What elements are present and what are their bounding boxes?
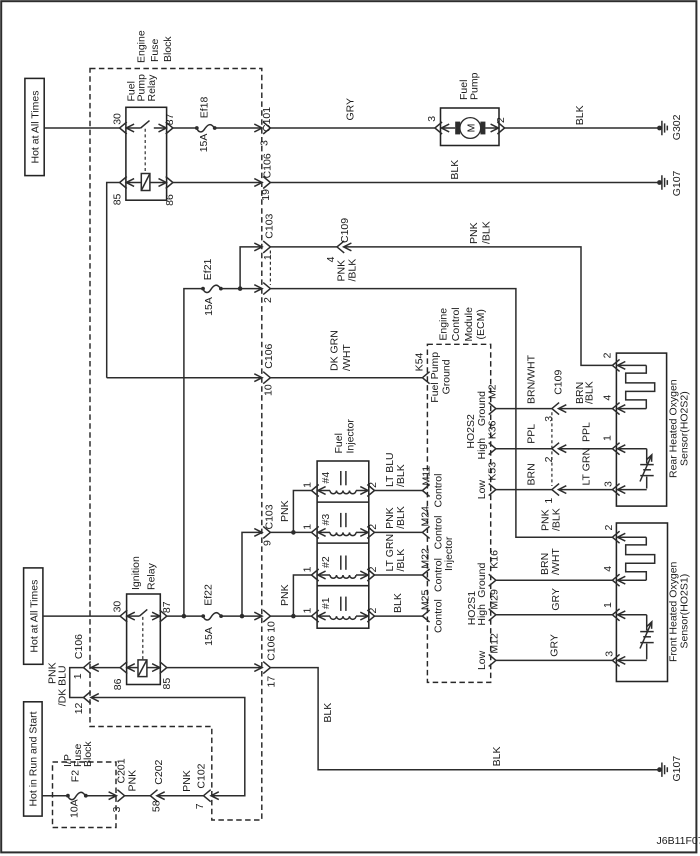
power box: Hot at All Times (lower) (24, 568, 43, 664)
wire: PNK/BLK to rear sensor pin 2 (344, 221, 613, 365)
svg-text:/BLK: /BLK (395, 506, 407, 529)
ECM pin K54 Fuel Pump Ground (414, 352, 453, 403)
svg-text:10: 10 (263, 384, 275, 396)
wire: BLK to ground G107 (270, 160, 659, 183)
fuel pump relay switch contact 30-87 (126, 121, 166, 132)
svg-text:C106 10: C106 10 (266, 621, 278, 661)
svg-text:G107: G107 (671, 170, 683, 196)
svg-text:PNK: PNK (279, 584, 291, 606)
svg-text:C109: C109 (553, 370, 565, 395)
svg-text:3: 3 (603, 481, 615, 487)
wire: relay85 branch to connector C106 pin 10 (107, 377, 262, 379)
svg-text:Injector: Injector (443, 536, 455, 571)
wire: pin 12 right and down to C102 (91, 698, 245, 796)
ECM pin M12 HO2S1 low (476, 633, 501, 670)
svg-text:30: 30 (112, 601, 124, 613)
fuel pump relay pin 85 (112, 177, 127, 206)
I/P Fuse Block dashed box (53, 741, 117, 828)
svg-text:2: 2 (543, 456, 555, 462)
svg-text:1: 1 (302, 482, 314, 488)
wire: PNK C202 to C102 (157, 770, 204, 795)
svg-text:2: 2 (602, 352, 614, 358)
svg-text:C106: C106 (262, 153, 274, 178)
fuel injector block (box) (317, 419, 369, 629)
connector pin 12 (73, 692, 99, 715)
connector C102 pin 7 (194, 763, 219, 809)
svg-text:BLK: BLK (322, 703, 334, 723)
svg-text:85: 85 (112, 193, 124, 205)
svg-text:Fuel Pump: Fuel Pump (429, 352, 441, 403)
wire: Hot at All Times to fuel pump relay pin 30 (44, 127, 119, 129)
svg-text:(ECM): (ECM) (475, 309, 487, 339)
wire: BRN/WHT M2 to C109-3 (496, 354, 552, 408)
junction on Ef22 wire at x184 (182, 614, 187, 619)
wire: relay pin 85 branch left and down to C106-10 wire (107, 183, 120, 378)
rear sensor sense cell (618, 445, 654, 494)
fuel pump relay pin 86 (164, 177, 176, 206)
injector 2 (coil and pins) (302, 556, 379, 582)
svg-text:C102: C102 (195, 763, 207, 788)
svg-text:2: 2 (367, 482, 379, 488)
front sensor pin 1 (602, 602, 620, 621)
svg-text:C109: C109 (339, 218, 351, 243)
ECM: Engine Control Module dashed box (427, 344, 490, 682)
connector C109 pin 1 (543, 484, 567, 504)
injector 4 (coil and pins) (302, 471, 379, 497)
ECM pin K16 HO2S1 ground (476, 550, 501, 598)
wire: relay pin 86 to connector C106-19 (173, 182, 262, 184)
wire: BLK down and across to G107 (270, 668, 659, 770)
rear sensor pin 1 (602, 435, 620, 455)
svg-text:1: 1 (302, 524, 314, 530)
svg-text:/BLK: /BLK (395, 464, 407, 487)
svg-text:58: 58 (150, 800, 162, 812)
svg-text:Hot in Run and Start: Hot in Run and Start (28, 711, 40, 806)
fuse Ef18 15A (195, 97, 217, 153)
ignition relay dashed actuator link (142, 617, 144, 660)
svg-text:BLK: BLK (574, 105, 586, 125)
wire: injector control to ECM pin M24 (375, 506, 445, 549)
svg-text:BRN/WHT: BRN/WHT (525, 354, 537, 404)
svg-text:15A: 15A (203, 297, 215, 316)
fuel pump relay pin 87 (164, 113, 176, 134)
svg-text:M25: M25 (420, 590, 432, 611)
rear sensor pin 2 (602, 352, 620, 371)
svg-text:4: 4 (602, 395, 614, 401)
front sensor heater element (618, 533, 655, 584)
svg-text:1: 1 (543, 498, 555, 504)
svg-text:C106: C106 (263, 343, 275, 368)
ignition relay coil (127, 660, 160, 677)
svg-text:BLK: BLK (491, 747, 503, 767)
svg-text:/BLK: /BLK (347, 259, 359, 282)
svg-text:BLK: BLK (449, 160, 461, 180)
wire: BRN/BLK C109-3 to rear sensor pin 4 (559, 381, 613, 408)
ignition relay pin 87 (160, 601, 173, 622)
svg-text:PNK: PNK (468, 222, 480, 244)
rear sensor pin 4 (602, 395, 620, 415)
wire: relay 87 to fuse Ef18 (173, 127, 197, 129)
svg-text:85: 85 (161, 678, 173, 690)
front sensor pin 2 (603, 525, 619, 544)
svg-text:PPL: PPL (580, 422, 592, 442)
wire: Hot in Run and Start to fuse F2 (42, 795, 68, 797)
svg-text:Fuse: Fuse (149, 38, 161, 62)
svg-text:C202: C202 (153, 759, 165, 784)
relay: Ignition Relay (box) (127, 556, 161, 685)
svg-text:2: 2 (367, 566, 379, 572)
svg-text:15A: 15A (198, 134, 210, 153)
svg-text:#1: #1 (320, 597, 332, 609)
connector C103 harness bracket (269, 251, 271, 286)
svg-text:BRN: BRN (525, 463, 537, 485)
svg-text:2: 2 (603, 525, 615, 531)
svg-text:M: M (466, 124, 478, 133)
rear heated oxygen sensor HO2S2 (box) (616, 353, 690, 506)
label: Engine Control Module (ECM) (437, 307, 487, 342)
connector C103 pin 9 (254, 504, 275, 546)
svg-text:2: 2 (367, 608, 379, 614)
svg-text:C103: C103 (263, 213, 275, 238)
svg-text:LT GRN: LT GRN (580, 448, 592, 486)
connector C101 pin 3 (254, 107, 273, 146)
svg-text:#2: #2 (320, 556, 332, 568)
svg-text:30: 30 (112, 113, 124, 125)
ignition relay switch contact 30-87 (127, 609, 160, 620)
svg-text:Injector: Injector (344, 419, 356, 454)
relay: Fuel Pump Relay (box) (125, 74, 166, 200)
svg-text:PNK: PNK (279, 500, 291, 522)
svg-text:Ground: Ground (441, 359, 453, 394)
svg-text:M24: M24 (420, 506, 432, 527)
wire: PNK/DK BLU jog from C106-1 to pin 12 (46, 662, 83, 706)
wire: injector control to ECM pin M22 (375, 534, 445, 592)
svg-text:3: 3 (426, 116, 438, 122)
svg-text:GRY: GRY (548, 634, 560, 657)
wire: GRY M29 to front sensor pin 1 (496, 588, 613, 615)
connector C106 pin 1 (72, 634, 99, 679)
svg-text:1: 1 (302, 566, 314, 572)
ignition relay pin 86 (112, 662, 127, 691)
svg-text:M2: M2 (487, 384, 499, 399)
svg-text:G107: G107 (671, 756, 683, 782)
wire: Hot at All Times to ignition relay pin 30 (43, 615, 120, 617)
svg-text:M29: M29 (489, 589, 501, 610)
rear sensor heater element (618, 362, 655, 413)
svg-text:1: 1 (602, 435, 614, 441)
svg-text:K53: K53 (487, 462, 499, 481)
svg-text:87: 87 (164, 113, 176, 125)
junction and branch up to C103 pin 1 (238, 247, 262, 291)
svg-text:15A: 15A (203, 627, 215, 646)
svg-text:1: 1 (262, 254, 274, 260)
connector C103 pin 1 (254, 213, 275, 260)
svg-text:2: 2 (495, 117, 507, 123)
wire: ignition relay 85 to connector C106 pin 17 (167, 667, 262, 669)
svg-text:C103: C103 (263, 504, 275, 529)
svg-text:Low: Low (476, 480, 488, 500)
svg-text:7: 7 (194, 803, 206, 809)
svg-text:Ef18: Ef18 (198, 97, 210, 119)
wire: C103-1 to inline connector C109-4 (270, 246, 337, 248)
wire: GRY to fuel pump (270, 98, 435, 128)
svg-text:M12: M12 (489, 633, 501, 654)
connector C103 pin 2 (254, 283, 273, 303)
ECM pin M29 HO2S1 high (476, 589, 501, 626)
svg-text:1: 1 (72, 673, 84, 679)
wire: fuse Ef21 to connector C103 pin 2 (221, 288, 262, 290)
svg-text:Control: Control (450, 307, 462, 341)
svg-text:PNK: PNK (126, 770, 138, 792)
svg-text:High: High (476, 438, 488, 460)
svg-text:HO2S1: HO2S1 (466, 591, 478, 626)
power box: Hot in Run and Start (24, 702, 42, 816)
front sensor sense cell (618, 611, 654, 664)
svg-text:M22: M22 (420, 548, 432, 569)
svg-text:/BLK: /BLK (395, 549, 407, 572)
wire: fuse F2 to connector C201 (86, 795, 116, 797)
ignition relay pin 85 (160, 662, 173, 690)
svg-text:PPL: PPL (525, 424, 537, 444)
fuse Ef21 15A (201, 258, 223, 315)
svg-text:Low: Low (476, 650, 488, 670)
injector 1 (coil and pins) (302, 597, 379, 623)
svg-text:3: 3 (111, 807, 123, 813)
svg-text:Sensor(HO2S1): Sensor(HO2S1) (678, 574, 690, 649)
Engine Fuse Block dashed outline (90, 69, 262, 821)
connector C106 pin 10 (lower) (254, 610, 277, 661)
ECM pin K36 HO2S2 high (476, 420, 499, 459)
injector 3 (coil and pins) (302, 513, 379, 539)
svg-text:G302: G302 (671, 114, 683, 140)
ground G107 (top) (657, 170, 683, 196)
svg-text:Hot at All Times: Hot at All Times (28, 580, 40, 653)
svg-text:3: 3 (543, 416, 555, 422)
svg-text:C106: C106 (73, 634, 85, 659)
svg-text:3: 3 (603, 651, 615, 657)
inline connector C109 pin 4 (325, 218, 351, 263)
svg-text:Block: Block (82, 741, 94, 767)
front sensor pin 4 (602, 566, 620, 586)
svg-text:#3: #3 (320, 514, 332, 526)
connector C109 harness bracket (551, 412, 553, 486)
label: Engine Fuse Block (135, 30, 174, 63)
svg-text:Ef22: Ef22 (202, 584, 214, 606)
connector C201 pin 3 (109, 758, 128, 812)
svg-text:17: 17 (265, 676, 277, 688)
connector C106 pin 17 (254, 662, 277, 688)
svg-text:HO2S2: HO2S2 (465, 414, 477, 449)
fuel pump relay dashed actuator link (144, 129, 146, 174)
svg-text:GRY: GRY (550, 588, 562, 611)
connector C106 pin 19 (254, 153, 273, 201)
fuse Ef22 15A (201, 584, 223, 646)
wire: injector control to ECM pin M11 (375, 452, 445, 507)
svg-text:Control: Control (433, 474, 445, 508)
wire: ignition relay 87 to fuse Ef22 (167, 615, 203, 617)
svg-text:87: 87 (161, 601, 173, 613)
wire: DK GRN/WHT to ECM K54 (270, 330, 422, 378)
svg-text:/BLK: /BLK (481, 221, 493, 244)
ground G302 (657, 114, 683, 140)
wire: fuse Ef22 to connector C106-10 (221, 615, 262, 617)
front heated oxygen sensor HO2S1 (box) (616, 523, 690, 682)
wire: GRY M12 to front sensor pin 3 (496, 634, 613, 660)
svg-text:86: 86 (164, 194, 176, 206)
svg-text:1: 1 (602, 602, 614, 608)
wire: BRN K53 to C109-1 (496, 463, 552, 489)
junction and branch up to C103 pin 9 (240, 532, 262, 618)
svg-text:9: 9 (262, 540, 274, 546)
svg-text:/WHT: /WHT (550, 548, 562, 575)
svg-text:1: 1 (302, 608, 314, 614)
svg-text:DK GRN: DK GRN (328, 330, 340, 371)
fuel pump FP (motor) (426, 72, 507, 145)
svg-text:19: 19 (260, 189, 272, 201)
wire: PNK/BLK C103-2 to front sensor pin 2 (270, 259, 612, 537)
ignition relay pin 30 (112, 601, 128, 623)
front sensor pin 3 (603, 651, 619, 667)
svg-text:Sensor(HO2S2): Sensor(HO2S2) (678, 391, 690, 466)
wire: vertical feed from Ef22 row up to fuse Ef21 (184, 289, 203, 616)
power box: Hot at All Times (top) (25, 78, 44, 175)
wire: injector control to ECM pin M25 (375, 590, 445, 634)
ground G107 (bottom) (657, 756, 683, 782)
connector C109 pin 3 (543, 370, 567, 422)
fuel pump relay coil (126, 174, 166, 191)
svg-text:K54: K54 (414, 352, 426, 371)
svg-text:K16: K16 (489, 550, 501, 569)
svg-text:Module: Module (463, 307, 475, 342)
svg-text:2: 2 (262, 297, 274, 303)
svg-text:86: 86 (112, 678, 124, 690)
svg-text:Ignition: Ignition (130, 556, 142, 590)
svg-text:3: 3 (259, 140, 271, 146)
svg-text:Relay: Relay (146, 74, 158, 102)
svg-text:#4: #4 (320, 472, 332, 484)
wire: PNK feed to injectors 1 and 2 (270, 575, 311, 618)
connector C106 pin 10 (254, 343, 275, 396)
svg-text:BLK: BLK (392, 593, 404, 613)
svg-text:K36: K36 (487, 420, 499, 439)
ECM pin M2 HO2S2 ground (476, 384, 499, 426)
svg-text:J6B11F07: J6B11F07 (657, 835, 700, 847)
svg-text:4: 4 (602, 566, 614, 572)
rear sensor pin 3 (603, 481, 620, 496)
svg-text:Pump: Pump (469, 72, 481, 100)
svg-text:Hot at All Times: Hot at All Times (30, 91, 42, 164)
svg-text:/WHT: /WHT (341, 344, 353, 371)
wire: ignition relay 86 to connector C106 pin 1 (91, 667, 120, 669)
wire: PNK feed to injectors 3 and 4 (270, 491, 311, 535)
wire: BRN/WHT K16 to front sensor pin 4 (496, 548, 613, 581)
svg-text:/DK BLU: /DK BLU (57, 665, 69, 706)
svg-text:GRY: GRY (345, 98, 357, 121)
svg-text:Block: Block (162, 36, 174, 62)
svg-text:2: 2 (367, 524, 379, 530)
svg-text:Engine: Engine (437, 308, 449, 341)
svg-text:Ef21: Ef21 (202, 258, 214, 280)
svg-text:PNK: PNK (181, 770, 193, 792)
wire: PPL K36 to C109-2 (496, 424, 552, 449)
connector C109 pin 2 (543, 443, 567, 463)
wire: BLK fuel pump to G302 (505, 105, 660, 128)
fuel pump relay pin 30 (112, 113, 127, 134)
svg-text:/BLK: /BLK (584, 381, 596, 404)
wire: fuse Ef18 to connector C101 (215, 127, 262, 129)
svg-text:F2: F2 (70, 770, 82, 782)
wire: PPL C109-2 to rear sensor pin 1 (559, 422, 613, 449)
svg-text:/BLK: /BLK (551, 508, 563, 531)
svg-text:10A: 10A (69, 799, 81, 818)
fuse F2 10A (66, 770, 88, 818)
svg-text:M11: M11 (420, 466, 432, 486)
svg-text:12: 12 (73, 702, 85, 714)
ECM pin K53 HO2S2 low (476, 462, 499, 499)
svg-text:Engine: Engine (135, 30, 147, 63)
wire: LT GRN C109-1 to rear sensor pin 3 (559, 448, 613, 490)
svg-text:Relay: Relay (146, 562, 158, 590)
wire: PNK C201 to C202 (125, 770, 151, 796)
svg-text:Control: Control (433, 599, 445, 633)
connector C202 pin 58 (150, 759, 165, 812)
